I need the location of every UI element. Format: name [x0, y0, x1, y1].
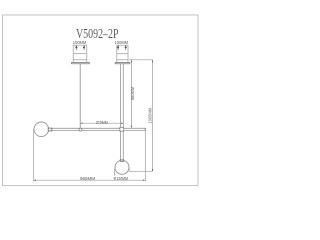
extension line bottom right from sphere to 1000MM line [129, 170, 153, 172]
dimension 370MM line [80, 122, 123, 124]
border frame [3, 15, 199, 186]
dimension 965MM arrows [34, 180, 146, 181]
dimension 370MM arrows [80, 123, 123, 124]
horizontal bar (double line) [52, 128, 146, 130]
svg-text:560MM: 560MM [130, 87, 135, 101]
svg-text:370MM: 370MM [96, 120, 108, 125]
canopy right flange [115, 63, 130, 64]
sphere left lamp [34, 122, 49, 137]
extension line from left sphere down to 965MM line [33, 129, 35, 182]
extension line top right [129, 59, 153, 61]
canopy right dimension arrows [117, 46, 126, 51]
svg-text:1000MM: 1000MM [148, 108, 153, 124]
sphere bottom lamp [115, 160, 129, 174]
rod left (single stem) [79, 64, 81, 128]
dimension 560MM arrows [131, 60, 132, 128]
cap where rod meets bottom sphere [120, 160, 124, 161]
dimension 1000MM arrows [152, 60, 153, 171]
dimension 965MM line [34, 179, 146, 181]
dimension D120MM extension ticks [115, 169, 130, 176]
bar end cap [144, 128, 146, 131]
canopy left body [73, 45, 87, 62]
dimension 1000MM line [152, 60, 154, 172]
svg-text:965MM: 965MM [80, 176, 95, 181]
extension line from bar end down to 965MM line [144, 128, 146, 181]
dimension 560MM line [130, 60, 132, 128]
sleeve at right rod and bar [120, 127, 124, 131]
svg-text:V5092–2P: V5092–2P [76, 26, 119, 41]
canopy right body [117, 45, 128, 62]
rod right (tube, double line) [121, 64, 124, 161]
junction circle at left rod and bar [79, 128, 82, 131]
connector left sphere to bar [48, 128, 52, 131]
canopy left dimension arrows [76, 46, 86, 51]
canopy left flange [72, 63, 90, 64]
svg-text:Φ120MM: Φ120MM [114, 176, 129, 181]
